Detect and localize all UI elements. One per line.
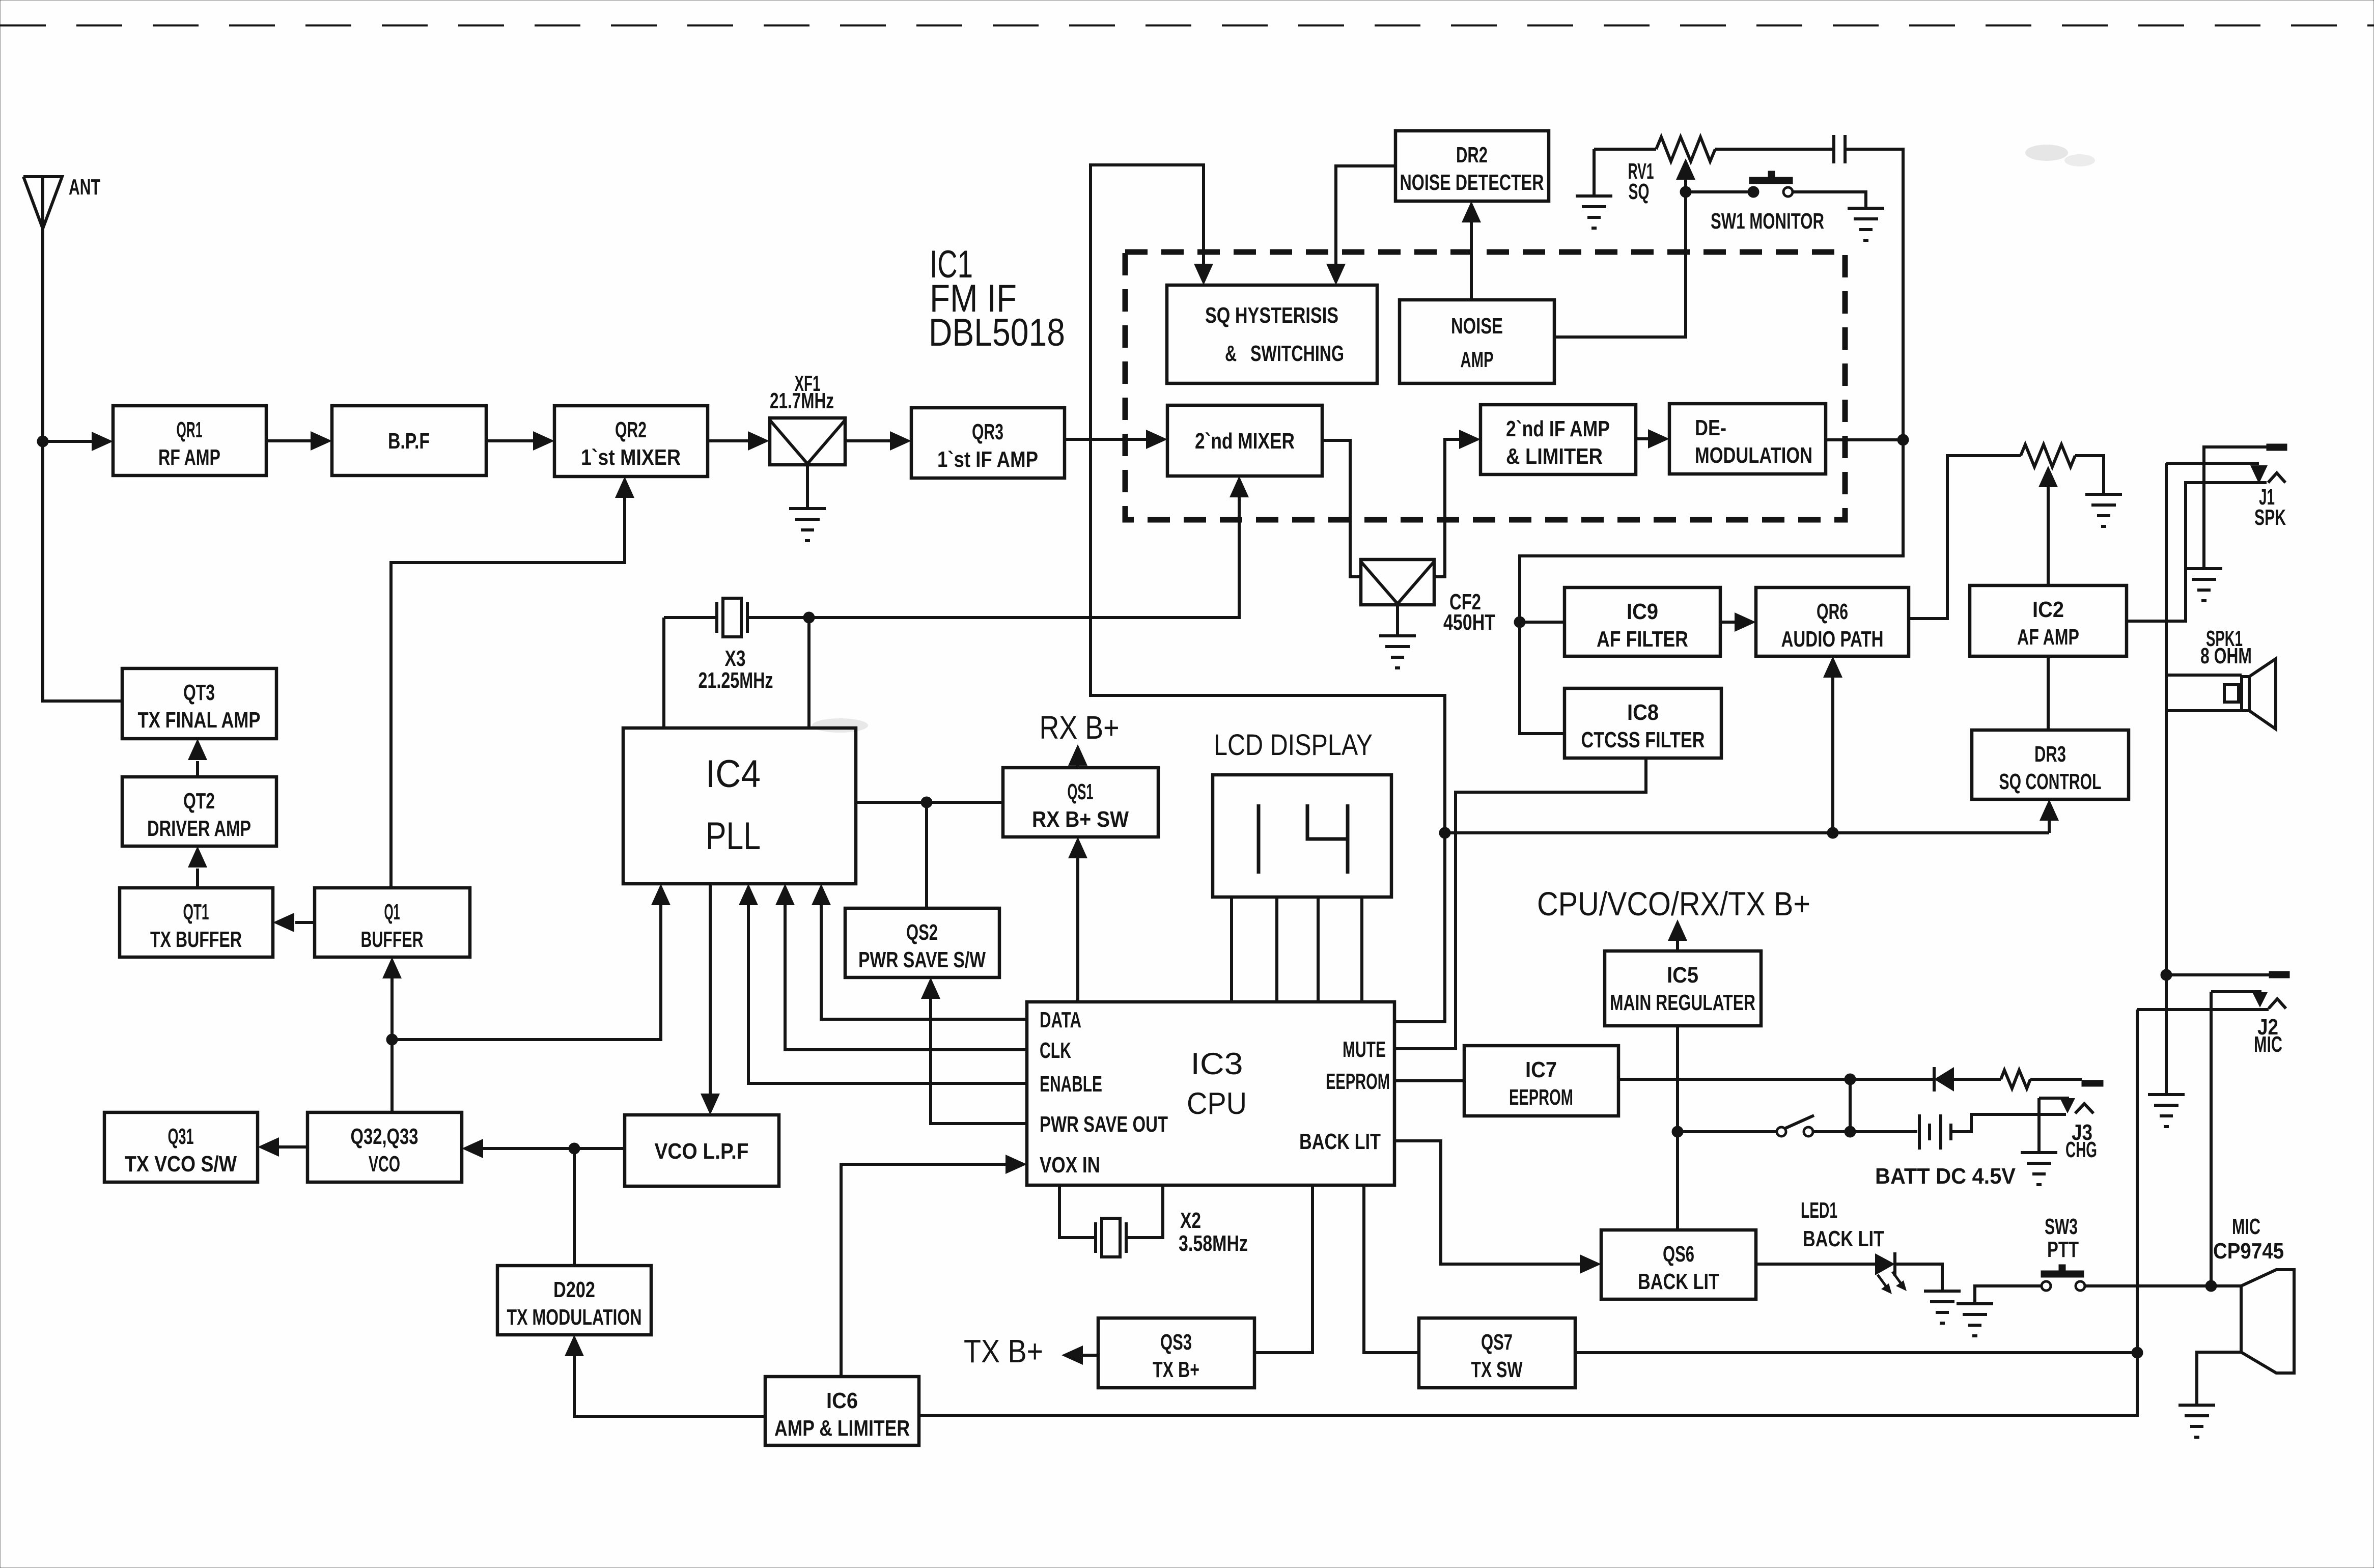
wiper arrow RV1 (1676, 158, 1695, 192)
svg-text:IC7: IC7 (1525, 1057, 1557, 1082)
svg-text:PWR SAVE S/W: PWR SAVE S/W (858, 947, 986, 972)
block B.P.F (332, 406, 486, 475)
ground J3 (2021, 1153, 2057, 1185)
wire CPU to QS7 (1364, 1185, 1419, 1353)
label TX B+ (964, 1333, 1043, 1369)
wire branch to D202 (573, 1149, 576, 1266)
svg-text:& LIMITER: & LIMITER (1506, 444, 1603, 469)
block QR3 1st IF AMP (911, 408, 1065, 478)
svg-text:QS3: QS3 (1160, 1330, 1192, 1355)
wiper volume to IC2 (2038, 466, 2058, 585)
svg-text:CTCSS FILTER: CTCSS FILTER (1581, 727, 1705, 752)
svg-text:RX B+: RX B+ (1040, 709, 1120, 746)
svg-text:QS2: QS2 (906, 920, 938, 945)
wire MUTE pin to IC8 (1394, 758, 1646, 1049)
svg-text:Q1: Q1 (384, 900, 400, 925)
wire switch line left (1678, 1130, 1778, 1133)
jack J2 MIC (2137, 971, 2289, 1057)
svg-text:& SWITCHING: & SWITCHING (1225, 341, 1344, 366)
block QS3 TX B+ (1098, 1318, 1254, 1388)
crystal X3 21.25MHz (664, 598, 809, 693)
block DR3 SQ CONTROL (1972, 730, 2129, 799)
svg-text:IC3: IC3 (1191, 1047, 1243, 1081)
LED1 diode (1801, 1198, 1907, 1294)
wire RV1 to ground (1593, 149, 1596, 196)
block DR2 NOISE DETECTER (1395, 131, 1549, 201)
svg-text:IC6: IC6 (826, 1388, 858, 1413)
svg-text:TX VCO S/W: TX VCO S/W (125, 1152, 237, 1177)
node VCO output (386, 1034, 398, 1045)
svg-text:CPU/VCO/RX/TX B+: CPU/VCO/RX/TX B+ (1537, 885, 1810, 922)
wire XF1 to ground (806, 465, 809, 509)
svg-text:LCD DISPLAY: LCD DISPLAY (1214, 729, 1373, 762)
ground J2 (2148, 1095, 2185, 1127)
svg-text:1`st MIXER: 1`st MIXER (581, 445, 681, 470)
label IC1 FM IF DBL5018 (929, 243, 1065, 354)
block QS2 PWR SAVE S/W (845, 908, 999, 977)
svg-text:VOX IN: VOX IN (1040, 1153, 1100, 1178)
wire QR6 out to volume pot (1909, 456, 2021, 619)
wire arrow RX B+ (1068, 744, 1087, 768)
label CPU/VCO/RX/TX B+ (1537, 885, 1810, 922)
wire Q1 to QT1 (273, 913, 315, 932)
ground SW3 (1957, 1304, 1993, 1336)
svg-text:IC4: IC4 (706, 752, 761, 796)
svg-text:EEPROM: EEPROM (1326, 1069, 1390, 1094)
node IC5 switch junction (1672, 1126, 1683, 1137)
svg-text:MODULATION: MODULATION (1695, 443, 1812, 468)
wire X3 left to IC4 (662, 618, 665, 728)
wire SW1 to ground (1793, 192, 1866, 208)
block IC4 PLL (623, 728, 856, 884)
node mic positive (2205, 1280, 2217, 1292)
wire LCD pin 2 (1275, 897, 1278, 1002)
wire QR2 to XF1 (708, 431, 769, 451)
wire IC7 out (1618, 1078, 1850, 1081)
ground SW1 (1848, 208, 1884, 240)
wire branch down to QS2 top (925, 802, 928, 908)
pin EEPROM (1326, 1069, 1390, 1094)
svg-text:ANT: ANT (69, 175, 100, 200)
svg-text:21.7MHz: 21.7MHz (770, 388, 834, 413)
wire QS7 out to PTT node (1575, 1351, 2137, 1354)
svg-text:TX BUFFER: TX BUFFER (150, 927, 242, 952)
svg-text:QR1: QR1 (177, 417, 203, 442)
wire NOISE AMP to DR2 (1462, 201, 1481, 300)
wire PWR SAVE OUT to QS2 (921, 977, 1027, 1124)
label IC4 PLL (706, 752, 761, 858)
pot RV1 SQ (1594, 137, 1715, 204)
wire antenna to QR1 input (43, 432, 113, 451)
scan artifact line top (0, 24, 2374, 26)
node mute rail QR6 branch (1827, 827, 1838, 838)
svg-text:QS7: QS7 (1481, 1330, 1513, 1355)
wire antenna stem to junction (41, 229, 44, 441)
svg-text:MAIN REGULATER: MAIN REGULATER (1610, 990, 1755, 1015)
svg-text:SW1 MONITOR: SW1 MONITOR (1711, 209, 1824, 234)
label IC3 CPU (1187, 1047, 1247, 1121)
block QR6 AUDIO PATH (1756, 587, 1909, 656)
svg-text:PLL: PLL (706, 815, 761, 858)
svg-text:IC9: IC9 (1627, 599, 1658, 624)
wire CF2 to ground (1396, 605, 1399, 636)
wire QR1 to BPF (266, 431, 332, 451)
wire RV1 to capacitor (1715, 148, 1834, 151)
svg-text:QT1: QT1 (183, 900, 209, 925)
svg-text:X3: X3 (725, 646, 746, 671)
wire IC4 out to QS1 (856, 801, 1003, 804)
svg-text:CHG: CHG (2065, 1137, 2097, 1162)
svg-text:QR2: QR2 (615, 417, 647, 442)
svg-text:AMP & LIMITER: AMP & LIMITER (774, 1416, 910, 1441)
wire J2 rail to ground (2165, 975, 2168, 1095)
svg-text:RX B+ SW: RX B+ SW (1032, 807, 1129, 832)
wire VCO out up (390, 1040, 394, 1112)
scan smudge 1 (2025, 145, 2095, 166)
svg-text:QS6: QS6 (1663, 1242, 1694, 1267)
block QT2 DRIVER AMP (122, 777, 276, 846)
svg-text:CPU: CPU (1187, 1086, 1247, 1121)
svg-text:TX MODULATION: TX MODULATION (507, 1305, 642, 1330)
svg-text:BACK LIT: BACK LIT (1299, 1129, 1381, 1154)
jack J3 CHG sleeve (2082, 1080, 2103, 1086)
wire mute rail (1445, 831, 2049, 834)
svg-text:X2: X2 (1180, 1208, 1201, 1233)
wire CF2 up to 2nd IF AMP (1434, 430, 1481, 577)
wire Q32 to Q31 (258, 1137, 308, 1157)
ground J1 (2186, 569, 2222, 601)
ground under CF2 (1379, 636, 1416, 668)
svg-text:BACK LIT: BACK LIT (1803, 1226, 1884, 1251)
svg-text:MUTE: MUTE (1343, 1037, 1386, 1062)
wire mic to ground (2197, 1352, 2241, 1405)
block QT1 TX BUFFER (120, 888, 273, 957)
block LCD (1213, 775, 1391, 897)
switch SW3 PTT (2041, 1214, 2085, 1291)
jack J3 contact (2039, 1098, 2097, 1162)
wire node to IC9 (1520, 621, 1565, 624)
node J2 rail (2161, 969, 2172, 981)
block IC5 MAIN REGULATER (1605, 951, 1761, 1026)
svg-text:IC8: IC8 (1627, 700, 1659, 725)
wire SW3 to ground (1975, 1286, 2042, 1304)
wire BPF to QR2 (486, 431, 554, 451)
wire QS3 TX B+ out (1062, 1346, 1098, 1365)
svg-text:DATA: DATA (1040, 1007, 1081, 1032)
wire battery to J3 (1951, 1114, 2066, 1132)
svg-text:AF FILTER: AF FILTER (1597, 627, 1688, 652)
diode charging (1850, 1067, 2001, 1091)
svg-text:EEPROM: EEPROM (1509, 1085, 1573, 1110)
svg-text:IC5: IC5 (1667, 963, 1698, 988)
block Q31 TX VCO S/W (104, 1112, 258, 1182)
node mute rail left (1439, 827, 1450, 838)
block Q1 BUFFER (315, 888, 470, 957)
wire SQ node to SW1 (1686, 190, 1753, 193)
svg-text:VCO: VCO (369, 1152, 400, 1177)
block QR2 1st MIXER (554, 406, 708, 477)
wire capacitor to demod node (1845, 149, 1903, 440)
node charge line (1845, 1074, 1856, 1085)
svg-text:RF AMP: RF AMP (158, 445, 220, 470)
resistor charging (2001, 1070, 2082, 1088)
block 2nd MIXER (1167, 405, 1322, 476)
wire pot to ground (2075, 456, 2104, 494)
capacitor squelch (1834, 135, 1845, 163)
pin PWR SAVE OUT (1040, 1112, 1168, 1137)
block SQ HYSTERISIS and SWITCHING (1167, 285, 1377, 383)
wire mute rail up to SQ HYSTERISIS (1091, 165, 1445, 833)
wire 2nd MIXER out to CF2 (1322, 440, 1361, 577)
LCD digit 1 (1257, 804, 1261, 874)
node SQ wiper junction (1680, 186, 1691, 198)
label RX B+ (1040, 709, 1120, 746)
switch SW2 power (1777, 1115, 1814, 1136)
wire J3 to ground (2037, 1098, 2041, 1153)
speaker SPK1 (2166, 626, 2276, 729)
wire LCD pin 3 (1317, 897, 1320, 1002)
block QS6 BACK LIT (1601, 1230, 1756, 1299)
wire IC6 to D202 (565, 1335, 765, 1416)
wire NOISE AMP out to SQ node (1554, 192, 1686, 337)
svg-text:MIC: MIC (2232, 1214, 2260, 1239)
block QS7 TX SW (1419, 1318, 1575, 1388)
jack J1 SPK (2166, 444, 2287, 530)
wire antenna down to QT3 (43, 441, 122, 701)
block DE-MODULATION (1669, 404, 1826, 474)
wire J1 rail down (2165, 463, 2168, 975)
svg-text:DR2: DR2 (1456, 143, 1488, 167)
node IC4 output branch (921, 797, 932, 808)
svg-text:TX SW: TX SW (1471, 1357, 1523, 1382)
svg-text:QS1: QS1 (1068, 779, 1094, 804)
wire 2nd IF AMP to DEMOD (1636, 429, 1669, 449)
svg-text:TX B+: TX B+ (1153, 1357, 1199, 1382)
filter XF1 21.7MHz (770, 371, 845, 465)
pin VOX IN (1040, 1153, 1100, 1178)
wire VCO LPF to Q32 (462, 1139, 625, 1158)
block QR1 RF AMP (113, 406, 266, 475)
block QT3 TX FINAL AMP (122, 668, 276, 739)
svg-text:NOISE DETECTER: NOISE DETECTER (1400, 170, 1544, 195)
svg-text:SQ: SQ (1629, 179, 1650, 204)
svg-text:CLK: CLK (1040, 1038, 1071, 1063)
pin DATA (1040, 1007, 1081, 1032)
svg-text:1`st IF AMP: 1`st IF AMP (937, 447, 1038, 472)
label LCD DISPLAY (1214, 729, 1373, 762)
svg-text:450HT: 450HT (1443, 610, 1495, 635)
wire X3 node to 2nd MIXER LO (809, 476, 1249, 618)
block IC9 AF FILTER (1565, 587, 1720, 656)
node X3 right (803, 612, 815, 623)
svg-text:SQ HYSTERISIS: SQ HYSTERISIS (1205, 303, 1338, 328)
svg-text:2`nd IF AMP: 2`nd IF AMP (1506, 416, 1610, 441)
svg-text:NOISE: NOISE (1451, 314, 1503, 339)
svg-text:3.58MHz: 3.58MHz (1179, 1231, 1248, 1256)
svg-text:QR6: QR6 (1817, 599, 1848, 624)
svg-text:MIC: MIC (2254, 1032, 2282, 1057)
svg-text:SW3: SW3 (2045, 1214, 2078, 1239)
svg-text:IC2: IC2 (2032, 597, 2064, 622)
svg-text:B.P.F: B.P.F (388, 429, 430, 454)
wire CLK to IC4 (775, 884, 1027, 1050)
pin MUTE (1343, 1037, 1386, 1062)
wire QT1 to QT2 (188, 846, 207, 888)
IC1 dashed boundary (1125, 252, 1845, 520)
node switch line (1845, 1126, 1856, 1137)
wire switch to battery (1812, 1130, 1917, 1133)
block IC2 AF AMP (1970, 585, 2127, 656)
node SW1 left terminal (1748, 186, 1759, 198)
wire VCO to Q1 (382, 957, 402, 1040)
wire charge node down (1849, 1079, 1852, 1132)
switch SW1 MONITOR (1711, 171, 1824, 234)
wire QS6 to LED1 (1756, 1263, 1875, 1266)
svg-text:TX B+: TX B+ (964, 1333, 1043, 1369)
svg-text:CP9745: CP9745 (2213, 1239, 2284, 1264)
ground LED1 (1924, 1291, 1961, 1323)
crystal X2 3.58MHz (1059, 1185, 1248, 1257)
block QS1 RX B+ SW (1003, 768, 1158, 837)
wire node to IC8 (1520, 622, 1565, 734)
block 2nd IF AMP and LIMITER (1481, 405, 1636, 474)
pot volume (2021, 444, 2075, 467)
block NOISE AMP (1400, 300, 1554, 383)
wire LCD pin 4 (1360, 897, 1363, 1002)
wire IC5 up arrow (1668, 919, 1687, 951)
antenna ANT symbol (23, 175, 100, 229)
wire J2 to mic line (2210, 992, 2213, 1286)
wire ENABLE to IC4 (739, 884, 1027, 1083)
svg-text:PTT: PTT (2047, 1237, 2079, 1262)
battery BATT DC 4.5V (1875, 1114, 2016, 1189)
wire IC2 down to DR3 (2047, 656, 2050, 730)
svg-text:BATT DC 4.5V: BATT DC 4.5V (1875, 1164, 2016, 1189)
svg-text:AUDIO PATH: AUDIO PATH (1781, 627, 1884, 652)
wire demod node down to AF node (1520, 440, 1903, 622)
svg-text:ENABLE: ENABLE (1040, 1072, 1102, 1097)
wire EEPROM pin to IC7 (1394, 1079, 1464, 1082)
wire LCD pin 1 (1230, 897, 1233, 1002)
svg-text:VCO L.P.F: VCO L.P.F (655, 1139, 749, 1164)
wire CPU to QS1 bottom (1068, 837, 1087, 1002)
wire IC2 out to J1 (2127, 483, 2267, 621)
svg-text:LED1: LED1 (1801, 1198, 1837, 1223)
wire DR2 to SQ HYSTERISIS (1326, 166, 1395, 285)
svg-text:PWR SAVE OUT: PWR SAVE OUT (1040, 1112, 1168, 1137)
wire CPU pin up to mute rail (1394, 833, 1445, 1022)
wire LED1 to ground (1895, 1264, 1942, 1291)
wire rail to DR3 bottom (2040, 799, 2059, 833)
block IC3 CPU (1027, 1002, 1394, 1185)
scan smudge 2 (812, 718, 868, 733)
block D202 TX MODULATION (497, 1266, 651, 1335)
filter CF2 450HT (1361, 559, 1495, 635)
svg-text:DBL5018: DBL5018 (929, 311, 1065, 354)
svg-text:8 OHM: 8 OHM (2200, 643, 2252, 668)
microphone MIC CP9745 (2213, 1214, 2294, 1373)
ground MIC (2179, 1405, 2215, 1437)
wire DEMOD out to junction (1826, 438, 1903, 441)
wire QR3 to 2nd MIXER (1065, 430, 1167, 449)
svg-text:DR3: DR3 (2034, 742, 2066, 767)
node antenna junction (37, 436, 48, 447)
LCD digit 4 (1307, 804, 1348, 874)
wire VCO feedback to IC4 (392, 884, 671, 1040)
pin ENABLE (1040, 1072, 1102, 1097)
wire CPU to QS3 (1254, 1185, 1312, 1353)
svg-text:QT3: QT3 (183, 680, 215, 705)
wire QT2 to QT3 (188, 739, 207, 777)
wire XF1 to QR3 (845, 431, 911, 451)
svg-text:DE-: DE- (1695, 415, 1726, 440)
svg-text:21.25MHz: 21.25MHz (699, 668, 773, 693)
wire X3 node to IC4 (807, 618, 811, 728)
svg-text:AMP: AMP (1461, 347, 1494, 372)
svg-text:BACK LIT: BACK LIT (1638, 1269, 1719, 1294)
wire J1 sleeve to ground (2204, 447, 2267, 569)
block Q32 Q33 VCO (308, 1112, 462, 1182)
wire IC4 to VCO LPF (701, 884, 720, 1115)
node demod output (1897, 434, 1909, 445)
svg-text:DRIVER AMP: DRIVER AMP (147, 816, 251, 841)
block IC8 CTCSS FILTER (1565, 688, 1721, 758)
wire VOX IN from IC6 (841, 1155, 1027, 1377)
pin BACK LIT (1299, 1129, 1381, 1154)
block IC6 AMP and LIMITER (765, 1377, 919, 1445)
svg-text:SPK: SPK (2254, 505, 2286, 530)
node AF filter input (1514, 617, 1525, 628)
svg-text:AF AMP: AF AMP (2017, 625, 2079, 650)
wire BACK LIT to QS6 (1394, 1141, 1601, 1274)
wire Q1 LO to QR2 (391, 477, 634, 888)
svg-text:QT2: QT2 (183, 789, 215, 814)
svg-text:SQ CONTROL: SQ CONTROL (1999, 769, 2102, 794)
wire DATA to IC4 (812, 884, 1027, 1019)
node VCO line D202 branch (569, 1143, 580, 1154)
ground under XF1 (789, 509, 826, 541)
wire SW3 to mic (2085, 1284, 2241, 1287)
svg-text:2`nd MIXER: 2`nd MIXER (1195, 429, 1295, 454)
node mic PTT junction (2132, 1347, 2143, 1358)
ground RV1 (1576, 196, 1612, 228)
svg-text:Q32,Q33: Q32,Q33 (351, 1124, 418, 1149)
pin CLK (1040, 1038, 1071, 1063)
svg-text:D202: D202 (553, 1277, 595, 1302)
block IC7 EEPROM (1464, 1046, 1618, 1116)
wire IC5 down to QS6 (1676, 1026, 1679, 1230)
svg-text:QR3: QR3 (972, 419, 1003, 444)
svg-text:BUFFER: BUFFER (361, 927, 424, 952)
wire IC9 to QR6 (1720, 612, 1756, 632)
wire IC6 out to mic node (919, 1010, 2137, 1415)
svg-text:TX FINAL AMP: TX FINAL AMP (138, 708, 261, 733)
block VCO L.P.F (625, 1115, 779, 1186)
wire branch to QR6 bottom (1823, 656, 1842, 833)
ground volume pot (2085, 494, 2122, 526)
svg-text:Q31: Q31 (168, 1124, 194, 1149)
